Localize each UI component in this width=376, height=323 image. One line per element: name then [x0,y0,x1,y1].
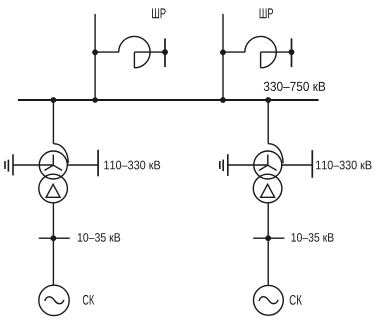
shunt reactor SR1 (3/4-circle coil with center lead) [119,36,165,67]
terminal bar: reactor 2 [291,38,293,67]
label SR2 [260,8,273,18]
label 10-35 kV (left) [78,233,120,242]
autotransformer AT1 series-winding arc [53,144,68,164]
junction: reactor 1 output [162,49,168,55]
label SC2 [290,295,302,305]
wire: AT2 medium-voltage lead [282,164,313,166]
wire: line feeder 1 (vertical, with shunt reactor tap) [94,14,96,100]
autotransformer AT1 HV winding circle with star [39,151,67,179]
label 110-330 kV (right) [316,161,371,170]
junction: reactor 2 output [289,49,295,55]
wire: AT2 neutral lead to ground [228,164,268,166]
tick: 10-35 kV tap 2 [253,237,284,239]
autotransformer AT2 HV winding circle with star [254,151,282,179]
busbar 330-750 kV [18,99,319,101]
autotransformer AT2 LV winding circle with delta [253,174,282,203]
ground: AT1 neutral [5,154,13,175]
shunt reactor SR2 (3/4-circle coil with center lead) [245,36,292,67]
synchronous condenser SC1 [39,285,69,315]
terminal bar: reactor 1 [164,38,166,67]
label 330-750 kV [264,82,325,91]
wire: line feeder 2 (vertical, with shunt reactor tap) [222,14,224,100]
label 10-35 kV (right) [292,233,334,242]
wire: reactor 2 tap lead [223,51,245,53]
wire: AT1 tertiary down link [52,203,54,285]
junction on busbar: feeder 2 [220,97,226,103]
junction: 10-35 kV tap 2 [265,235,271,241]
terminal bar: AT2 110-330 kV [311,150,313,178]
synchronous condenser SC2 [254,285,284,315]
wire: reactor 1 tap lead [95,51,119,53]
junction on busbar: feeder 1 [92,97,98,103]
junction: reactor 1 tap [92,50,98,56]
wire: bus to autotransformer AT2 [267,100,269,144]
wire: bus to autotransformer AT1 [52,100,54,144]
wire: AT2 tertiary down link [267,203,269,286]
wire: AT1 medium-voltage lead [67,164,98,166]
label SR1 [152,8,166,18]
label 110-330 kV (left) [104,161,160,170]
junction on busbar: AT1 [51,97,57,103]
junction on busbar: AT2 [265,97,271,103]
label SC1 [83,295,94,305]
autotransformer AT1 LV winding circle with delta [39,174,68,203]
ground: AT2 neutral [220,154,228,176]
junction: 10-35 kV tap 1 [51,235,57,241]
junction: reactor 2 tap [220,50,226,56]
terminal bar: AT1 110-330 kV [97,150,99,177]
wire: AT1 neutral lead to ground [13,164,53,166]
autotransformer AT2 series-winding arc [268,144,283,164]
tick: 10-35 kV tap 1 [39,237,70,239]
